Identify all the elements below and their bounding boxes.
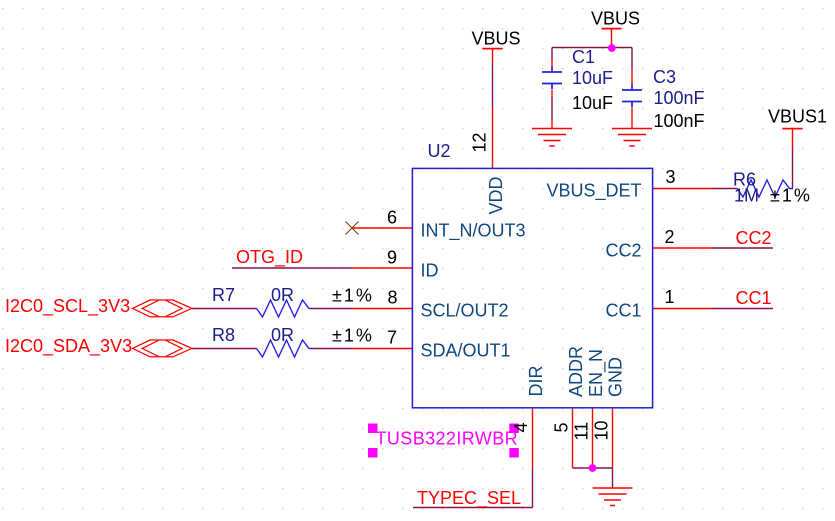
svg-text:7: 7 — [387, 328, 397, 348]
svg-text:I2C0_SCL_3V3: I2C0_SCL_3V3 — [5, 296, 130, 317]
svg-text:TYPEC_SEL: TYPEC_SEL — [417, 488, 521, 509]
svg-text:10uF: 10uF — [572, 68, 613, 88]
svg-text:DIR: DIR — [526, 366, 546, 397]
svg-text:CC1: CC1 — [736, 288, 772, 308]
svg-text:11: 11 — [572, 422, 592, 441]
svg-text:1: 1 — [665, 287, 675, 307]
svg-text:0R: 0R — [271, 285, 294, 305]
svg-text:6: 6 — [387, 207, 397, 227]
svg-text:U2: U2 — [428, 141, 451, 161]
svg-text:10uF: 10uF — [572, 93, 613, 113]
svg-text:VDD: VDD — [486, 176, 506, 214]
svg-text:R7: R7 — [212, 285, 235, 305]
svg-text:TUSB322IRWBR: TUSB322IRWBR — [376, 429, 519, 449]
svg-text:C3: C3 — [653, 67, 676, 87]
svg-text:C1: C1 — [572, 47, 595, 67]
svg-text:10: 10 — [592, 420, 612, 440]
svg-text:5: 5 — [552, 422, 572, 432]
svg-text:0R: 0R — [271, 325, 294, 345]
svg-text:EN_N: EN_N — [586, 349, 607, 397]
svg-text:OTG_ID: OTG_ID — [236, 247, 303, 268]
svg-text:INT_N/OUT3: INT_N/OUT3 — [421, 221, 526, 242]
svg-text:2: 2 — [665, 227, 675, 247]
svg-text:±1%: ±1% — [770, 186, 812, 206]
svg-text:GND: GND — [606, 357, 626, 397]
svg-text:12: 12 — [470, 132, 490, 152]
svg-text:1M: 1M — [734, 186, 759, 206]
svg-text:R8: R8 — [212, 325, 235, 345]
svg-text:9: 9 — [387, 247, 397, 267]
svg-text:I2C0_SDA_3V3: I2C0_SDA_3V3 — [5, 336, 132, 357]
svg-text:100nF: 100nF — [654, 111, 705, 131]
svg-text:VBUS: VBUS — [591, 9, 640, 29]
svg-text:CC2: CC2 — [736, 228, 772, 248]
svg-text:ID: ID — [421, 261, 439, 281]
svg-text:VBUS: VBUS — [471, 29, 520, 49]
svg-text:VBUS_DET: VBUS_DET — [546, 181, 641, 202]
svg-text:CC2: CC2 — [605, 241, 641, 261]
svg-text:VBUS1: VBUS1 — [768, 107, 827, 127]
svg-text:ADDR: ADDR — [566, 346, 586, 397]
svg-text:100nF: 100nF — [654, 88, 705, 108]
svg-text:CC1: CC1 — [605, 301, 641, 321]
svg-text:SDA/OUT1: SDA/OUT1 — [421, 341, 511, 361]
svg-text:8: 8 — [387, 288, 397, 308]
svg-text:SCL/OUT2: SCL/OUT2 — [421, 301, 509, 321]
svg-text:±1%: ±1% — [332, 326, 374, 346]
svg-text:±1%: ±1% — [332, 286, 374, 306]
svg-text:3: 3 — [666, 167, 676, 187]
